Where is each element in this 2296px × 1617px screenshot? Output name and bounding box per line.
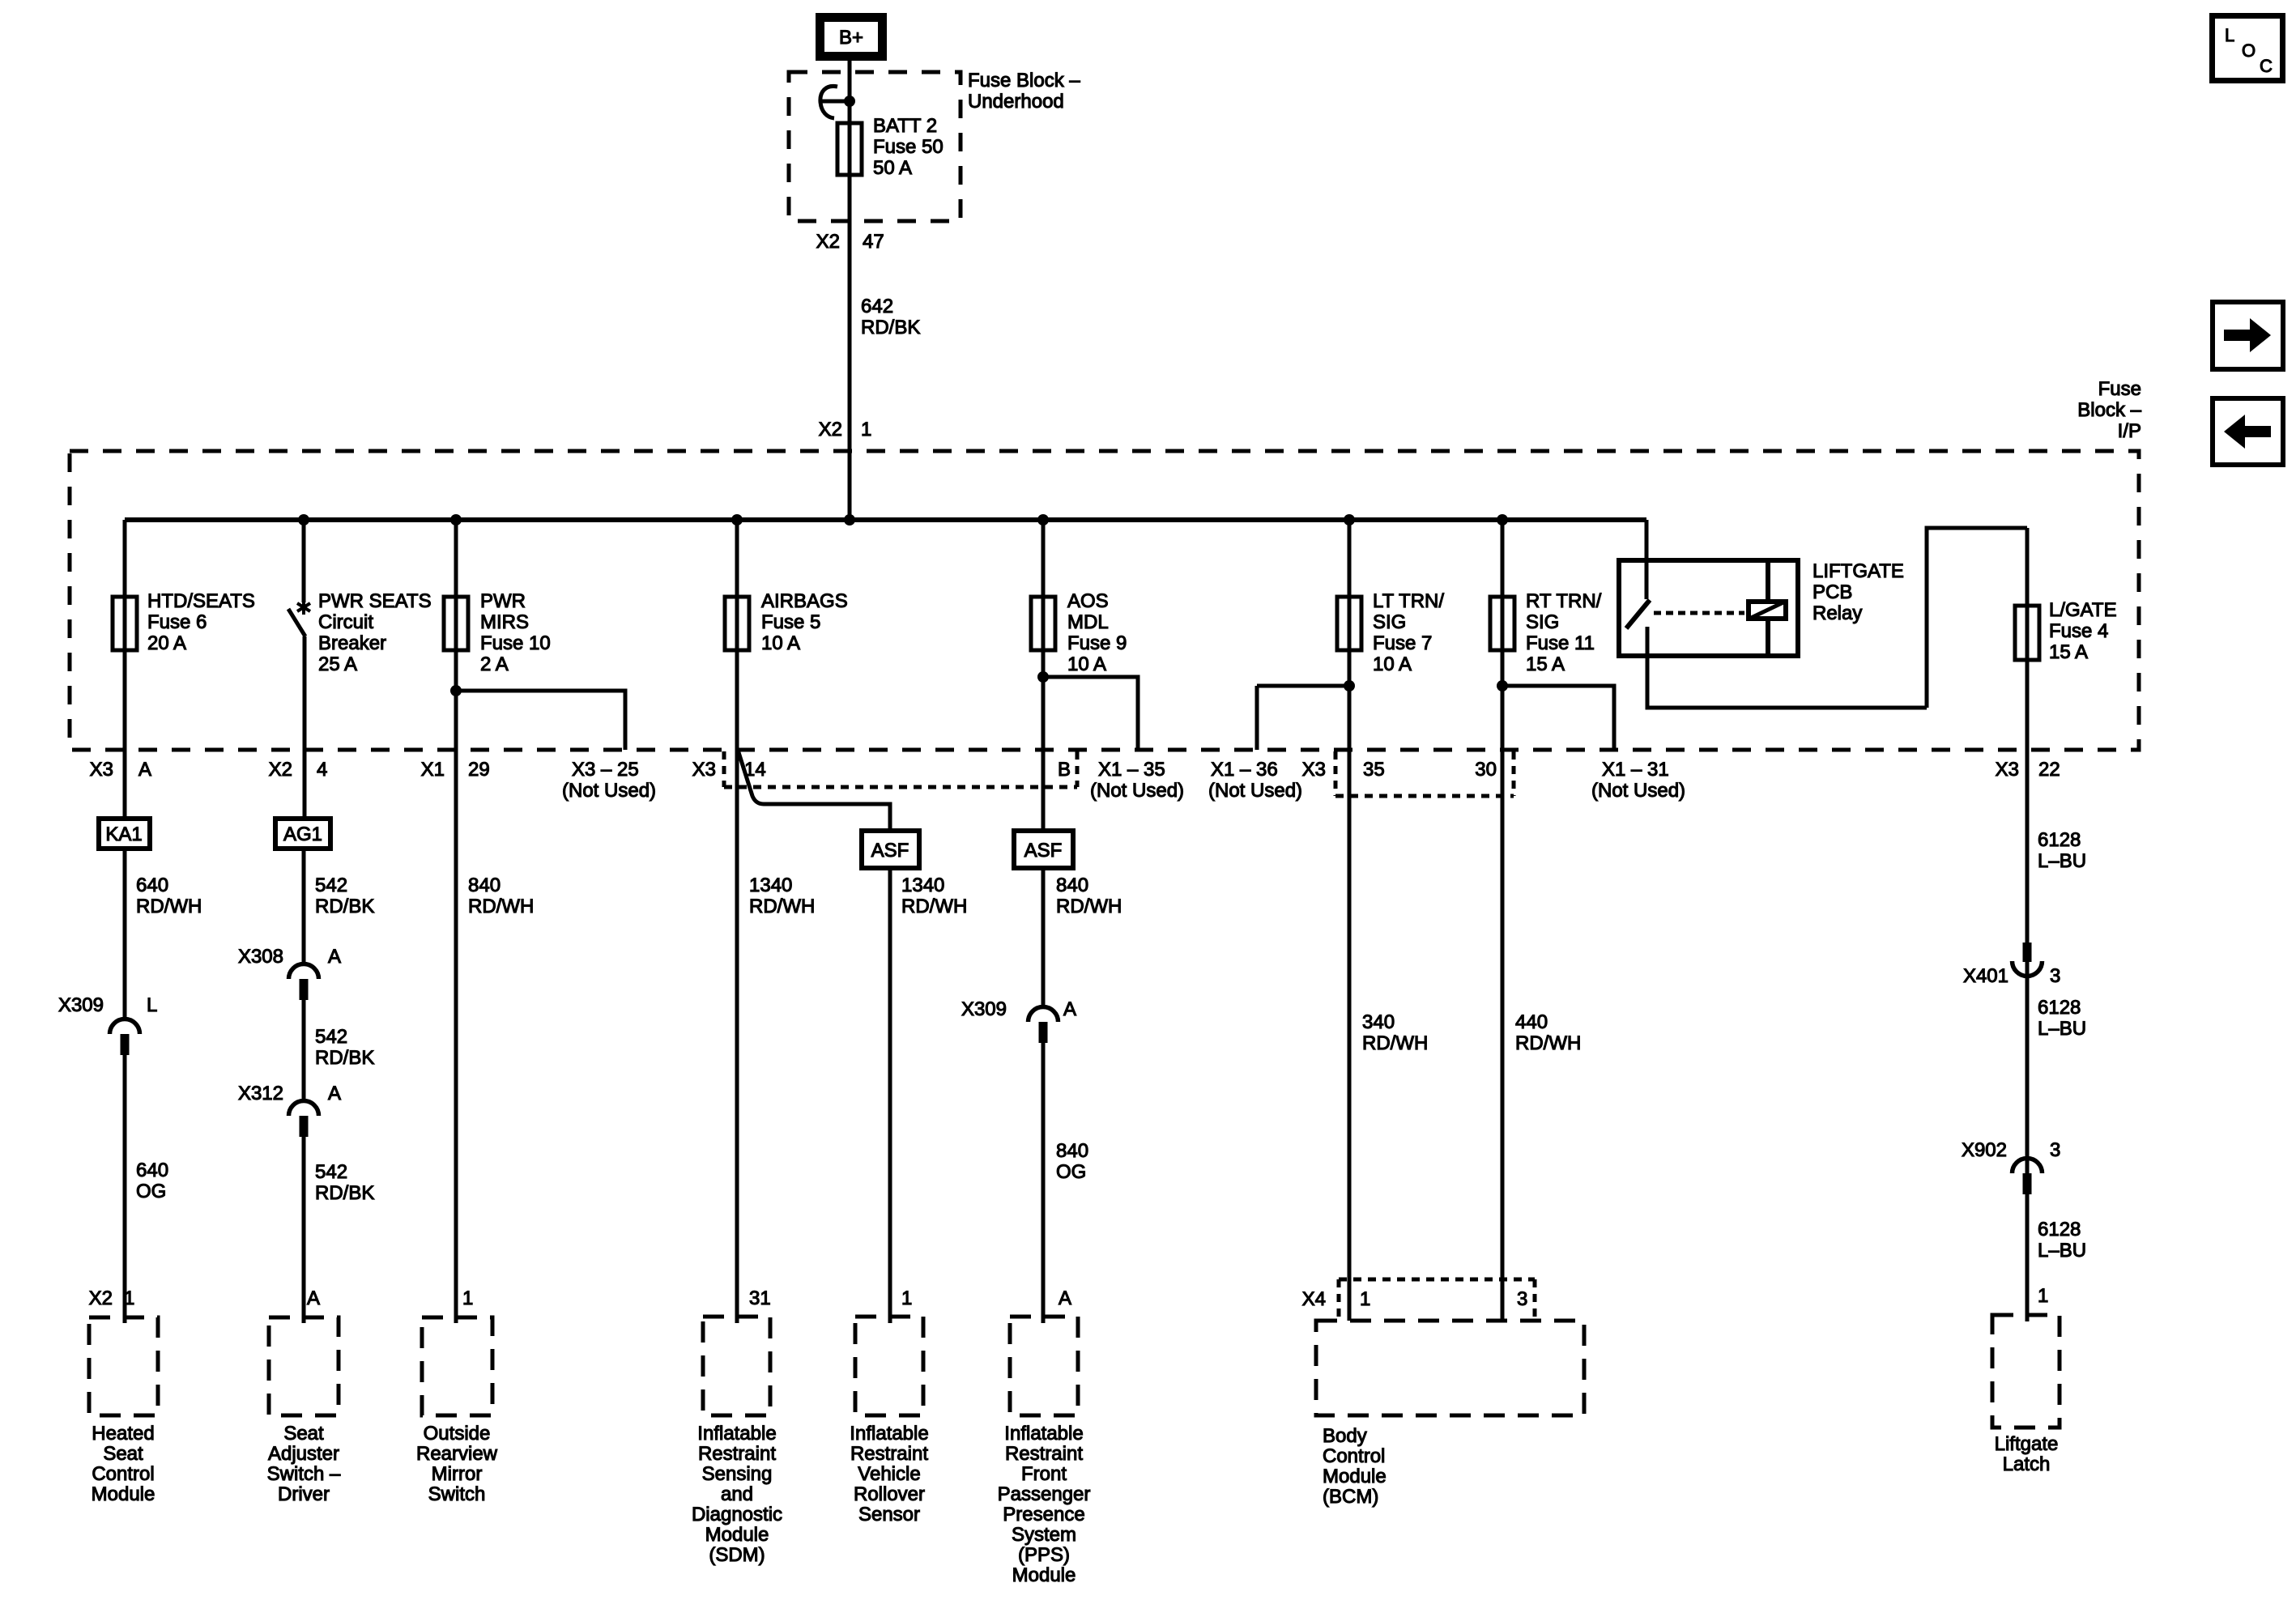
svg-text:10 A: 10 A	[761, 632, 800, 654]
wire label 1340 RD/WH rollover	[901, 874, 967, 917]
svg-text:X902: X902	[1962, 1139, 2007, 1161]
label Body Control Module BCM	[1323, 1425, 1387, 1508]
svg-text:(SDM): (SDM)	[709, 1544, 765, 1566]
module box SDM	[703, 1317, 770, 1415]
svg-text:L: L	[147, 994, 157, 1016]
module box liftgate latch	[1992, 1315, 2060, 1428]
svg-text:PWR: PWR	[480, 590, 526, 612]
wire 840 OG	[1042, 1043, 1046, 1323]
label AIRBAGS Fuse 5 10 A	[761, 590, 848, 654]
svg-text:Liftgate: Liftgate	[1995, 1433, 2059, 1455]
connector X401 pin 3	[2013, 943, 2043, 977]
label AOS MDL Fuse 9 10 A	[1067, 590, 1127, 675]
wire label 840 OG	[1056, 1140, 1088, 1183]
connector X312 pin A	[289, 1101, 319, 1138]
svg-text:840: 840	[468, 874, 501, 896]
svg-text:PWR SEATS: PWR SEATS	[318, 590, 432, 612]
svg-text:X2: X2	[89, 1287, 113, 1309]
svg-text:Circuit: Circuit	[318, 611, 373, 633]
svg-text:31: 31	[749, 1287, 771, 1309]
wire branch X1-36 stub	[1255, 686, 1259, 750]
connector box AG1	[275, 819, 330, 849]
svg-text:Fuse 7: Fuse 7	[1373, 632, 1432, 654]
svg-text:10 A: 10 A	[1067, 653, 1106, 675]
junction bus feed	[844, 514, 855, 526]
svg-text:X309: X309	[961, 998, 1007, 1020]
svg-text:22: 22	[2038, 759, 2060, 781]
svg-text:C: C	[2260, 56, 2273, 76]
junction AOS branch	[1037, 671, 1049, 683]
label not used X1-36	[1208, 780, 1302, 802]
svg-text:1: 1	[1360, 1288, 1370, 1310]
svg-text:340: 340	[1362, 1011, 1395, 1033]
wire label 440 RD/WH	[1515, 1011, 1581, 1054]
splice box ASF right	[1014, 831, 1073, 868]
label L/GATE Fuse 4 15 A	[2049, 599, 2117, 663]
svg-text:Mirror: Mirror	[432, 1463, 483, 1485]
svg-text:L–BU: L–BU	[2038, 1018, 2086, 1040]
splice box ASF left	[862, 831, 919, 868]
svg-text:X309: X309	[58, 994, 104, 1016]
svg-text:X312: X312	[238, 1083, 283, 1104]
svg-text:Fuse 4: Fuse 4	[2049, 620, 2108, 642]
label Fuse Block - Underhood	[968, 70, 1080, 113]
svg-text:Presence: Presence	[1003, 1504, 1084, 1526]
fuse HTD/SEATS Fuse 6	[113, 597, 137, 650]
svg-text:Adjuster: Adjuster	[268, 1443, 339, 1465]
svg-text:Switch: Switch	[428, 1483, 486, 1505]
svg-text:30: 30	[1475, 759, 1497, 781]
label LT TRN SIG Fuse 7 10 A	[1373, 590, 1444, 675]
svg-text:1: 1	[2038, 1285, 2048, 1307]
svg-text:6128: 6128	[2038, 829, 2081, 851]
label Inflatable Restraint Vehicle Rollover Sensor	[850, 1423, 928, 1526]
svg-text:RD/BK: RD/BK	[861, 317, 920, 338]
wire PWR SEATS upper	[302, 520, 306, 602]
svg-text:X4: X4	[1302, 1288, 1326, 1310]
svg-text:3: 3	[2050, 1139, 2060, 1161]
svg-text:Rollover: Rollover	[854, 1483, 925, 1505]
svg-text:6128: 6128	[2038, 997, 2081, 1019]
wire label 6128 L-BU middle	[2038, 997, 2086, 1040]
svg-text:Diagnostic: Diagnostic	[692, 1504, 782, 1526]
svg-text:35: 35	[1363, 759, 1385, 781]
junction underhood	[844, 96, 855, 107]
svg-text:(BCM): (BCM)	[1323, 1486, 1378, 1508]
svg-text:Module: Module	[705, 1524, 769, 1546]
svg-text:840: 840	[1056, 1140, 1088, 1162]
label Liftgate Latch	[1995, 1433, 2059, 1475]
svg-text:System: System	[1012, 1524, 1076, 1546]
svg-text:Module: Module	[92, 1483, 155, 1505]
svg-text:Breaker: Breaker	[318, 632, 386, 654]
relay switch	[1626, 558, 1650, 658]
svg-text:Seat: Seat	[283, 1423, 324, 1445]
svg-text:(Not Used): (Not Used)	[1591, 780, 1685, 802]
fuse AIRBAGS Fuse 5	[725, 597, 749, 650]
svg-text:Passenger: Passenger	[998, 1483, 1091, 1505]
svg-text:Module: Module	[1323, 1466, 1387, 1487]
svg-text:L–BU: L–BU	[2038, 1240, 2086, 1262]
wire label 542 RD/BK lower	[315, 1161, 374, 1204]
svg-text:L–BU: L–BU	[2038, 850, 2086, 872]
pin label X1 - 36	[1211, 759, 1278, 781]
wire RT TRN column	[1501, 520, 1505, 1319]
wire branch X1-31 not used	[1502, 686, 1614, 750]
svg-text:6128: 6128	[2038, 1219, 2081, 1240]
svg-text:A: A	[1059, 1287, 1071, 1309]
wire label 6128 L-BU upper	[2038, 829, 2086, 872]
wire HTD/SEATS fuse column	[123, 520, 127, 816]
svg-text:Fuse 9: Fuse 9	[1067, 632, 1127, 654]
label LIFTGATE PCB Relay	[1813, 560, 1904, 624]
svg-text:1340: 1340	[901, 874, 944, 896]
wire L/GATE column	[2026, 528, 2030, 1321]
svg-text:X3: X3	[1302, 759, 1326, 781]
svg-text:1340: 1340	[749, 874, 792, 896]
wire label 642 RD/BK	[861, 296, 920, 338]
wire 840 RD/WH pps	[1042, 870, 1046, 1006]
svg-text:A: A	[328, 1083, 341, 1104]
connector X309 pin A	[1029, 1007, 1059, 1044]
icon LOC box	[2213, 16, 2283, 81]
svg-text:Body: Body	[1323, 1425, 1367, 1447]
svg-text:A: A	[307, 1287, 320, 1309]
wire 640 OG	[123, 1055, 127, 1323]
svg-text:(PPS): (PPS)	[1018, 1544, 1070, 1566]
relay box LIFTGATE PCB	[1619, 560, 1798, 656]
connector dotted box X3 pins 35-30	[1335, 751, 1514, 796]
svg-text:I/P: I/P	[2118, 420, 2141, 442]
svg-text:1: 1	[462, 1287, 473, 1309]
wire label 542 RD/BK middle	[315, 1026, 374, 1069]
svg-text:(Not Used): (Not Used)	[1208, 780, 1302, 802]
svg-text:Heated: Heated	[92, 1423, 154, 1445]
svg-text:Sensing: Sensing	[702, 1463, 773, 1485]
svg-text:and: and	[721, 1483, 753, 1505]
svg-text:2 A: 2 A	[480, 653, 509, 675]
svg-text:KA1: KA1	[105, 823, 142, 845]
junction RT TRN branch	[1497, 680, 1508, 691]
module box heated seat control module	[89, 1317, 158, 1415]
wire label 340 RD/WH	[1362, 1011, 1428, 1054]
wire label 840 RD/WH	[468, 874, 534, 917]
svg-text:3: 3	[2050, 965, 2060, 987]
fuse block underhood dashed box	[789, 72, 961, 221]
label RT TRN SIG Fuse 11 15 A	[1526, 590, 1602, 675]
svg-text:RD/WH: RD/WH	[1515, 1032, 1581, 1054]
label HTD/SEATS Fuse 6 20 A	[147, 590, 255, 654]
label Seat Adjuster Switch - Driver	[267, 1423, 341, 1505]
fusible link hook symbol	[820, 86, 850, 118]
connector X309 pin L	[110, 1019, 140, 1055]
junction bus PWR SEATS	[298, 514, 309, 526]
svg-text:Restraint: Restraint	[850, 1443, 928, 1465]
junction bus AIRBAGS	[731, 514, 743, 526]
svg-text:640: 640	[136, 874, 168, 896]
svg-text:RD/WH: RD/WH	[468, 896, 534, 917]
svg-text:B: B	[1058, 759, 1071, 781]
svg-text:Fuse 10: Fuse 10	[480, 632, 551, 654]
svg-text:X3: X3	[692, 759, 716, 781]
junction bus RT TRN	[1497, 514, 1508, 526]
connector dotted box X4	[1339, 1279, 1535, 1318]
svg-text:Inflatable: Inflatable	[850, 1423, 928, 1445]
wire relay output lower	[1647, 658, 1927, 708]
module box rollover sensor	[855, 1317, 923, 1415]
svg-text:Fuse 6: Fuse 6	[147, 611, 207, 633]
label not used X1-35	[1090, 780, 1184, 802]
junction bus LT TRN	[1344, 514, 1355, 526]
circuit breaker PWR SEATS	[288, 600, 310, 636]
svg-text:542: 542	[315, 874, 347, 896]
svg-text:29: 29	[468, 759, 490, 781]
relay coil	[1749, 558, 1786, 658]
wire 542 RD/BK lower	[302, 1137, 306, 1323]
module box PPS	[1010, 1317, 1078, 1415]
junction PWR MIRS branch	[450, 685, 462, 696]
svg-text:Latch: Latch	[2003, 1453, 2051, 1475]
svg-text:X401: X401	[1963, 965, 2008, 987]
svg-text:X3 – 25: X3 – 25	[572, 759, 639, 781]
svg-text:Sensor: Sensor	[858, 1504, 920, 1526]
svg-text:1: 1	[901, 1287, 912, 1309]
svg-text:50 A: 50 A	[873, 157, 912, 179]
wire LT TRN column	[1348, 520, 1352, 1321]
svg-text:Inflatable: Inflatable	[697, 1423, 776, 1445]
svg-text:15 A: 15 A	[1526, 653, 1565, 675]
connector X902 pin 3	[2013, 1159, 2043, 1195]
label not used X1-31	[1591, 780, 1685, 802]
connector X308 pin A	[289, 964, 319, 1000]
svg-text:Fuse: Fuse	[2098, 378, 2141, 400]
svg-text:Fuse 5: Fuse 5	[761, 611, 820, 633]
svg-text:A: A	[328, 946, 341, 968]
connector box KA1	[99, 819, 150, 849]
svg-text:Restraint: Restraint	[698, 1443, 776, 1465]
svg-text:HTD/SEATS: HTD/SEATS	[147, 590, 255, 612]
wire 542 RD/BK upper	[302, 851, 306, 964]
svg-text:Control: Control	[92, 1463, 154, 1485]
wire branch X1-35 not used	[1043, 677, 1138, 750]
wire bus to relay	[1645, 520, 1649, 558]
svg-text:RD/WH: RD/WH	[1362, 1032, 1428, 1054]
wire branch X1-36 horizontal	[1257, 684, 1349, 688]
svg-text:47: 47	[863, 231, 884, 253]
svg-text:840: 840	[1056, 874, 1088, 896]
wire label 640 RD/WH	[136, 874, 202, 917]
svg-text:RD/BK: RD/BK	[315, 1182, 374, 1204]
wire B+ feed 642 RD/BK	[848, 61, 852, 520]
svg-text:OG: OG	[1056, 1161, 1086, 1183]
wire label 542 RD/BK upper	[315, 874, 374, 917]
svg-text:1: 1	[861, 419, 871, 440]
bus wire	[125, 517, 1646, 522]
junction bus AOS	[1037, 514, 1049, 526]
pin label X1 - 31	[1602, 759, 1669, 781]
svg-text:O: O	[2242, 40, 2256, 61]
svg-text:25 A: 25 A	[318, 653, 357, 675]
svg-text:Fuse Block –: Fuse Block –	[968, 70, 1080, 91]
svg-text:Fuse 11: Fuse 11	[1526, 632, 1595, 654]
svg-text:3: 3	[1517, 1288, 1527, 1310]
svg-text:AOS: AOS	[1067, 590, 1109, 612]
svg-text:Relay: Relay	[1813, 602, 1862, 624]
power symbol B+	[820, 18, 883, 57]
svg-text:Underhood: Underhood	[968, 91, 1064, 113]
svg-text:15 A: 15 A	[2049, 641, 2088, 663]
svg-text:LIFTGATE: LIFTGATE	[1813, 560, 1904, 582]
svg-text:RD/WH: RD/WH	[749, 896, 815, 917]
wire 542 RD/BK middle	[302, 1000, 306, 1100]
svg-text:RT TRN/: RT TRN/	[1526, 590, 1602, 612]
wire 640 RD/WH	[123, 851, 127, 1019]
svg-text:Block –: Block –	[2077, 399, 2141, 421]
label PWR MIRS Fuse 10 2 A	[480, 590, 551, 675]
svg-text:10 A: 10 A	[1373, 653, 1412, 675]
svg-text:Outside: Outside	[424, 1423, 491, 1445]
svg-text:X2: X2	[269, 759, 292, 781]
svg-text:20 A: 20 A	[147, 632, 186, 654]
junction LT TRN branch	[1344, 680, 1355, 691]
wire label 640 OG	[136, 1160, 168, 1202]
relay control dashed line	[1654, 611, 1744, 615]
svg-text:MIRS: MIRS	[480, 611, 529, 633]
module box BCM	[1316, 1321, 1584, 1415]
wire branch X3-25 not used	[456, 691, 625, 750]
svg-text:RD/BK: RD/BK	[315, 896, 374, 917]
fuse AOS MDL Fuse 9	[1031, 597, 1055, 650]
svg-text:AG1: AG1	[283, 823, 322, 845]
wire label 840 RD/WH pps	[1056, 874, 1122, 917]
label Inflatable Restraint Sensing and Diagnostic Module SDM	[692, 1423, 782, 1566]
fuse LT TRN/SIG Fuse 7	[1337, 597, 1361, 650]
svg-text:RD/BK: RD/BK	[315, 1047, 374, 1069]
wire label 1340 RD/WH sdm	[749, 874, 815, 917]
svg-text:(Not Used): (Not Used)	[562, 780, 656, 802]
wire PWR MIRS column	[454, 520, 458, 1323]
svg-text:Switch –: Switch –	[267, 1463, 341, 1485]
icon arrow left box	[2213, 398, 2283, 465]
label not used X3-25	[562, 780, 656, 802]
svg-text:640: 640	[136, 1160, 168, 1181]
svg-text:B+: B+	[839, 27, 863, 49]
connector dotted box X3 pins 14-B	[724, 751, 1077, 787]
svg-text:Fuse 50: Fuse 50	[873, 136, 944, 158]
svg-text:L: L	[2225, 25, 2234, 45]
svg-text:RD/WH: RD/WH	[1056, 896, 1122, 917]
svg-text:X2: X2	[816, 231, 840, 253]
svg-text:(Not Used): (Not Used)	[1090, 780, 1184, 802]
svg-text:Control: Control	[1323, 1445, 1385, 1467]
pin label X1 - 35	[1098, 759, 1165, 781]
svg-text:PCB: PCB	[1813, 581, 1852, 603]
svg-text:L/GATE: L/GATE	[2049, 599, 2117, 621]
svg-text:OG: OG	[136, 1181, 166, 1202]
module box seat adjuster switch driver	[269, 1317, 339, 1415]
svg-text:ASF: ASF	[1024, 840, 1063, 862]
svg-text:AIRBAGS: AIRBAGS	[761, 590, 848, 612]
module box outside rearview mirror switch	[422, 1317, 492, 1415]
label Heated Seat Control Module	[92, 1423, 155, 1505]
svg-text:ASF: ASF	[871, 840, 909, 862]
wire relay output riser	[1927, 528, 2027, 708]
pin label X3 - 25	[572, 759, 639, 781]
svg-text:Restraint: Restraint	[1005, 1443, 1083, 1465]
svg-text:642: 642	[861, 296, 893, 317]
svg-text:X3: X3	[90, 759, 113, 781]
fuse L/GATE Fuse 4	[2015, 606, 2039, 660]
svg-text:X2: X2	[819, 419, 842, 440]
svg-text:LT TRN/: LT TRN/	[1373, 590, 1444, 612]
wire branch pin14 to ASF	[738, 750, 890, 828]
svg-text:SIG: SIG	[1526, 611, 1559, 633]
svg-text:X1 – 36: X1 – 36	[1211, 759, 1278, 781]
svg-text:Inflatable: Inflatable	[1004, 1423, 1083, 1445]
svg-text:RD/WH: RD/WH	[136, 896, 202, 917]
label PWR SEATS Circuit Breaker 25 A	[318, 590, 432, 675]
label Inflatable Restraint Front Passenger Presence System PPS Module	[998, 1423, 1091, 1586]
svg-text:X1: X1	[421, 759, 445, 781]
svg-text:BATT 2: BATT 2	[873, 115, 937, 137]
label Fuse Block - I/P	[2077, 378, 2141, 442]
fuse block I/P dashed box	[70, 451, 2139, 750]
fuse PWR MIRS Fuse 10	[444, 597, 468, 650]
svg-text:RD/WH: RD/WH	[901, 896, 967, 917]
label BATT 2 Fuse 50 50 A	[873, 115, 944, 179]
svg-text:Seat: Seat	[103, 1443, 143, 1465]
svg-text:X308: X308	[238, 946, 283, 968]
svg-text:X1 – 35: X1 – 35	[1098, 759, 1165, 781]
svg-text:X1 – 31: X1 – 31	[1602, 759, 1669, 781]
label Outside Rearview Mirror Switch	[416, 1423, 498, 1505]
svg-text:X3: X3	[1996, 759, 2019, 781]
wire AOS column upper	[1042, 520, 1046, 828]
wire AIRBAGS column to SDM	[735, 520, 739, 1323]
fuse RT TRN/SIG Fuse 11	[1490, 597, 1514, 650]
svg-text:Driver: Driver	[278, 1483, 330, 1505]
svg-text:4: 4	[317, 759, 327, 781]
svg-text:Rearview: Rearview	[416, 1443, 498, 1465]
svg-text:Module: Module	[1012, 1564, 1076, 1586]
svg-text:542: 542	[315, 1026, 347, 1048]
svg-text:Vehicle: Vehicle	[858, 1463, 920, 1485]
wire label 6128 L-BU lower	[2038, 1219, 2086, 1262]
svg-text:440: 440	[1515, 1011, 1548, 1033]
icon arrow right box	[2213, 302, 2283, 369]
svg-text:542: 542	[315, 1161, 347, 1183]
svg-text:A: A	[1063, 998, 1076, 1020]
svg-text:MDL: MDL	[1067, 611, 1109, 633]
wire PWR SEATS lower	[303, 636, 307, 816]
fuse BATT 2 Fuse 50	[837, 123, 862, 175]
svg-text:SIG: SIG	[1373, 611, 1406, 633]
wire 1340 RD/WH rollover	[888, 870, 892, 1323]
svg-text:Front: Front	[1021, 1463, 1067, 1485]
svg-text:1: 1	[124, 1287, 134, 1309]
svg-text:A: A	[138, 759, 151, 781]
junction bus PWR MIRS	[450, 514, 462, 526]
